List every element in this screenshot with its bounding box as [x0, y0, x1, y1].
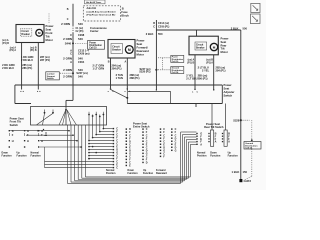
svg-text:Power: Power	[221, 37, 229, 41]
mechanism left contacts	[37, 110, 54, 125]
splice S227	[60, 71, 88, 75]
svg-text:A: A	[70, 60, 72, 64]
wire: rear motor pin A	[192, 55, 199, 94]
svg-text:Front: Front	[46, 31, 53, 35]
svg-text:Breaker: Breaker	[112, 49, 121, 51]
svg-text:2 LT BLU: 2 LT BLU	[186, 76, 197, 80]
wire: 2 BLK vertical to C212	[156, 20, 157, 91]
svg-text:2 BLK: 2 BLK	[231, 26, 239, 30]
label 2 BLK 550 right	[231, 26, 248, 30]
label 2 DK BLU 286	[2, 66, 32, 70]
wire: front motor pin A	[9, 43, 23, 92]
svg-text:Power: Power	[224, 83, 232, 87]
ground distribution reference box right	[171, 67, 184, 75]
ground distribution cell box	[244, 142, 261, 150]
svg-text:Adjuster: Adjuster	[224, 90, 235, 94]
connector C004	[70, 60, 85, 64]
svg-text:Function: Function	[17, 155, 28, 158]
svg-text:284 (P1): 284 (P1)	[216, 68, 226, 72]
connector C205 pin C	[153, 26, 169, 29]
entire switch position labels	[106, 169, 167, 175]
connector C298	[70, 33, 85, 37]
hot at all times header	[85, 0, 106, 4]
power seat adjuster switch label	[224, 83, 235, 98]
power distribution reference box right	[171, 55, 184, 63]
svg-text:C212 1-4: C212 1-4	[78, 48, 89, 52]
svg-text:286 (P1): 286 (P1)	[22, 66, 32, 70]
convenience center dotted segment	[73, 26, 107, 34]
wire: orange feed vertical	[67, 4, 73, 26]
svg-text:C2 (P1): C2 (P1)	[76, 31, 84, 33]
svg-text:287 (P1): 287 (P1)	[40, 58, 50, 62]
black bus top	[156, 29, 240, 31]
connector C212 pin B	[153, 22, 169, 25]
svg-text:Center: Center	[90, 29, 99, 33]
svg-text:S228: S228	[233, 118, 240, 122]
forward/rearward motor label	[137, 39, 150, 57]
svg-text:Rear Tilt Switch: Rear Tilt Switch	[204, 125, 224, 129]
svg-text:(xx) A: (xx) A	[2, 39, 9, 42]
bus right corner loop	[127, 85, 222, 107]
label 2 DK BLU 287	[21, 58, 50, 62]
label 2 ORN 540 third	[63, 56, 83, 60]
svg-text:Forward/: Forward/	[137, 46, 149, 50]
wire: orange feed mid	[72, 33, 74, 85]
svg-text:(xx) A: (xx) A	[10, 46, 17, 49]
fuse block label	[121, 6, 129, 17]
label 2 YEL 284	[202, 68, 226, 72]
power seat front tilt switch label	[10, 117, 24, 127]
svg-text:Switch: Switch	[47, 77, 54, 80]
svg-text:Rearward: Rearward	[137, 49, 150, 53]
svg-text:(xx) B: (xx) B	[30, 47, 37, 49]
svg-text:550: 550	[158, 32, 163, 36]
power seat rear tilt switch label	[204, 122, 224, 129]
rear tilt switch position labels	[197, 151, 238, 157]
label 1 BLK 150	[232, 170, 248, 174]
svg-text:H: H	[12, 140, 14, 143]
bus left corner	[15, 85, 31, 104]
drops to rear switch bars	[212, 104, 226, 131]
svg-text:2 BLK: 2 BLK	[146, 32, 154, 36]
svg-text:Auto Ent: Auto Ent	[87, 7, 97, 10]
fuse block dashed box	[83, 6, 120, 21]
svg-text:Seat: Seat	[137, 42, 143, 46]
power distribution cell box	[88, 41, 105, 50]
svg-text:Power: Power	[137, 39, 145, 43]
svg-text:C: C	[116, 167, 118, 170]
power seat front tilt motor box	[16, 25, 44, 43]
wire: rear motor pin B	[213, 55, 214, 91]
front tilt motor M	[36, 29, 43, 36]
svg-text:H: H	[41, 140, 43, 143]
svg-text:Function: Function	[228, 155, 239, 158]
svg-text:A: A	[215, 141, 217, 144]
fwd motor diagonal join	[111, 89, 129, 104]
svg-text:G: G	[175, 149, 177, 152]
svg-text:M: M	[128, 48, 131, 52]
svg-text:Function: Function	[2, 155, 13, 158]
rear tilt motor label	[221, 37, 229, 55]
ground G404	[239, 179, 251, 183]
svg-text:A: A	[70, 48, 72, 52]
wire: fwd motor pin A	[124, 58, 131, 93]
wire bundle staircase to rear switch	[67, 125, 196, 183]
svg-text:Function: Function	[143, 172, 154, 175]
label 2 ORN 540 top	[61, 22, 83, 26]
connector C429	[70, 52, 90, 56]
rear motor stub to bus	[196, 30, 198, 36]
svg-text:150: 150	[243, 170, 248, 174]
label 1 LT GRN 284	[93, 66, 122, 70]
rear tilt switch contacts	[196, 133, 230, 147]
svg-text:S446: S446	[65, 42, 72, 46]
label 2 LT BLU 286	[186, 76, 207, 80]
power seat rear tilt motor box	[189, 36, 218, 55]
mechanism right contacts	[88, 112, 104, 118]
svg-text:G404: G404	[244, 179, 252, 183]
orange feed bus horizontal	[15, 84, 222, 86]
svg-text:Switch: Switch	[10, 123, 19, 127]
black link horizontal	[128, 91, 171, 103]
svg-text:D: D	[146, 162, 148, 165]
svg-text:(P1) A: (P1) A	[9, 49, 16, 52]
splice labels S227 S228	[139, 68, 150, 74]
svg-text:C1 (xx): C1 (xx)	[76, 28, 84, 30]
svg-text:Seat: Seat	[221, 40, 227, 44]
label 2 ORN 540	[63, 37, 83, 41]
svg-text:Cell 10: Cell 10	[89, 48, 97, 50]
ground distribution dotted wire	[244, 120, 253, 180]
front tilt contact wires	[10, 130, 82, 148]
svg-text:(P1) A: (P1) A	[206, 61, 213, 64]
svg-text:Circuit: Circuit	[112, 45, 120, 48]
svg-text:Power: Power	[89, 41, 96, 44]
svg-text:C429 (xx): C429 (xx)	[78, 52, 90, 56]
wire: fwd motor pin B	[108, 58, 115, 93]
feed entry to switch box	[66, 85, 73, 107]
svg-text:A: A	[200, 143, 202, 146]
lumbar switch reference box	[46, 72, 60, 80]
connector C212 pin A	[70, 48, 89, 52]
svg-text:1 BLK: 1 BLK	[232, 170, 240, 174]
power seat entire switch label	[133, 121, 150, 128]
nav icon 1	[251, 3, 260, 12]
svg-text:Motor: Motor	[137, 53, 144, 57]
svg-text:540: 540	[78, 56, 83, 60]
pin label stack front tilt	[2, 39, 9, 45]
svg-text:A: A	[124, 61, 126, 64]
svg-text:1 TAN: 1 TAN	[116, 76, 123, 80]
label 2 ORN 540 fifth	[63, 75, 83, 79]
svg-text:550: 550	[243, 26, 248, 30]
svg-text:M: M	[213, 45, 216, 49]
svg-text:(P1) B: (P1) B	[2, 43, 9, 45]
power seat forward/rearward motor box	[108, 40, 135, 59]
svg-text:C205 (P1): C205 (P1)	[158, 26, 170, 29]
svg-text:(P1) B: (P1) B	[30, 50, 37, 52]
svg-text:540: 540	[78, 22, 83, 26]
svg-text:Seat: Seat	[46, 28, 52, 32]
svg-text:Distribution: Distribution	[89, 44, 102, 47]
svg-text:2 ORN: 2 ORN	[63, 75, 72, 79]
label 1 DK GRN 287	[21, 55, 50, 59]
svg-text:C: C	[153, 26, 155, 29]
label 2 LT BLU 282	[198, 66, 226, 70]
svg-text:2 ORN: 2 ORN	[63, 37, 72, 41]
svg-text:Cell 10: Cell 10	[172, 61, 179, 63]
svg-text:Tilt: Tilt	[46, 35, 50, 39]
mechanism center feed and fan	[59, 107, 77, 126]
label 2 BLK 550 left	[146, 32, 163, 36]
svg-text:1 LT GRN: 1 LT GRN	[93, 66, 105, 70]
label 2 ORN 540 fourth	[63, 68, 83, 72]
svg-text:Switch: Switch	[224, 94, 233, 98]
svg-text:Circuit: Circuit	[196, 43, 204, 46]
rear tilt switch slider bars	[211, 130, 228, 146]
forward/rearward motor M	[125, 46, 133, 54]
svg-text:C: C	[70, 52, 72, 56]
svg-text:Motor: Motor	[46, 38, 53, 42]
svg-text:B: B	[122, 6, 124, 10]
svg-text:Breaker: Breaker	[21, 34, 30, 36]
svg-text:H: H	[27, 140, 29, 143]
svg-text:Breaker: Breaker	[196, 47, 205, 49]
svg-text:G: G	[12, 130, 14, 133]
svg-text:A: A	[228, 141, 230, 144]
svg-text:288 (P1): 288 (P1)	[130, 76, 140, 80]
svg-text:(xx)=40 Amp Circuit Breaker: (xx)=40 Amp Circuit Breaker	[87, 10, 116, 13]
svg-text:C: C	[67, 18, 69, 21]
svg-text:Cell 14: Cell 14	[172, 71, 179, 74]
wire bundle verticals to entire switch	[89, 115, 103, 141]
svg-text:540: 540	[78, 75, 83, 79]
svg-text:Seat: Seat	[224, 87, 230, 91]
svg-text:284 (P1): 284 (P1)	[112, 66, 122, 70]
svg-text:(P1) B: (P1) B	[187, 61, 194, 64]
svg-text:2 YEL: 2 YEL	[202, 68, 210, 72]
label 2 TAN 288	[116, 73, 140, 77]
svg-text:540: 540	[78, 37, 83, 41]
label 1 TAN 288	[116, 76, 140, 80]
svg-text:2 ORN: 2 ORN	[63, 68, 72, 72]
svg-text:2 DK BLU: 2 DK BLU	[21, 58, 33, 62]
label 2 DK GRN 285	[2, 63, 32, 67]
svg-text:Position: Position	[106, 172, 116, 175]
svg-text:Rear: Rear	[221, 43, 227, 47]
splice dot on black wire	[155, 58, 170, 71]
svg-text:G: G	[27, 130, 29, 133]
splice S228	[233, 118, 249, 122]
svg-text:G: G	[41, 130, 43, 133]
label 2 YEL 285	[186, 73, 207, 77]
svg-text:286 (P1): 286 (P1)	[198, 76, 208, 80]
nav icon 2	[250, 14, 260, 24]
wire: 2 BLK ground drop	[240, 30, 242, 179]
svg-text:2 DK BLU: 2 DK BLU	[2, 66, 14, 70]
svg-text:(P1)=Power Seat Circuit Bkr: (P1)=Power Seat Circuit Bkr	[87, 14, 116, 17]
svg-text:Block: Block	[121, 14, 129, 18]
entire switch contact columns	[113, 128, 177, 170]
svg-text:C004: C004	[78, 60, 85, 64]
entire switch row wires	[45, 128, 113, 168]
switch mechanism box	[31, 107, 107, 126]
svg-text:Motor: Motor	[221, 50, 228, 54]
svg-text:Cell 14: Cell 14	[245, 147, 253, 150]
svg-text:B: B	[108, 61, 110, 64]
label 2 LT GRN 284	[93, 63, 122, 67]
rear tilt motor M	[210, 43, 217, 50]
svg-text:B: B	[67, 8, 69, 11]
svg-text:S228 (P1): S228 (P1)	[139, 71, 150, 74]
svg-text:2 ORN: 2 ORN	[63, 56, 72, 60]
svg-text:Function: Function	[31, 155, 42, 158]
dotted stub above front motor	[48, 14, 50, 24]
pin label stacks rear motor	[187, 59, 213, 65]
svg-text:540: 540	[78, 68, 83, 72]
svg-text:Tilt: Tilt	[221, 47, 225, 51]
svg-text:Circuit: Circuit	[21, 30, 29, 33]
wire: front motor pin B	[30, 43, 40, 92]
front tilt motor label	[46, 24, 54, 42]
svg-text:Power: Power	[46, 24, 54, 28]
splice S446	[65, 42, 87, 46]
svg-text:Position: Position	[197, 155, 207, 158]
svg-text:Function: Function	[210, 155, 221, 158]
svg-text:Rearward: Rearward	[156, 172, 167, 175]
svg-text:Fuse: Fuse	[121, 10, 128, 14]
front tilt switch position labels	[2, 151, 42, 157]
svg-text:Function: Function	[128, 172, 139, 175]
front tilt switch contacts	[9, 129, 47, 148]
svg-text:Hot At All Times: Hot At All Times	[86, 1, 102, 4]
svg-text:2 ORN: 2 ORN	[61, 22, 70, 26]
